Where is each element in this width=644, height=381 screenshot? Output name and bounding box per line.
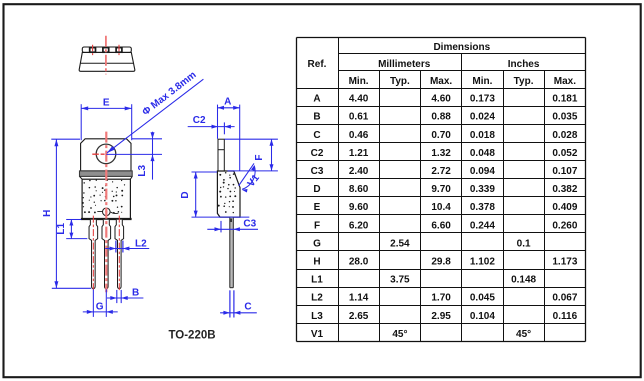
svg-text:V1: V1 xyxy=(311,329,324,340)
svg-text:6.20: 6.20 xyxy=(349,220,369,231)
svg-text:0.107: 0.107 xyxy=(552,166,577,177)
svg-text:3.75: 3.75 xyxy=(390,275,410,286)
svg-text:D: D xyxy=(180,191,191,198)
svg-text:0.46: 0.46 xyxy=(349,130,369,141)
svg-text:6.60: 6.60 xyxy=(431,220,451,231)
svg-text:L1: L1 xyxy=(311,275,323,286)
svg-text:0.028: 0.028 xyxy=(552,130,577,141)
svg-text:0.067: 0.067 xyxy=(552,293,577,304)
svg-text:0.173: 0.173 xyxy=(470,94,495,105)
svg-text:B: B xyxy=(313,112,320,123)
svg-text:C2: C2 xyxy=(311,148,324,159)
svg-text:Dimensions: Dimensions xyxy=(433,42,490,53)
svg-text:1.32: 1.32 xyxy=(431,148,451,159)
svg-text:0.018: 0.018 xyxy=(470,130,495,141)
svg-text:D: D xyxy=(313,184,320,195)
svg-text:Ref.: Ref. xyxy=(308,59,327,70)
svg-text:0.104: 0.104 xyxy=(470,311,495,322)
svg-text:TO-220B: TO-220B xyxy=(168,330,215,342)
svg-text:2.72: 2.72 xyxy=(431,166,451,177)
svg-text:Max.: Max. xyxy=(554,76,576,87)
svg-text:0.339: 0.339 xyxy=(470,184,495,195)
svg-text:9.70: 9.70 xyxy=(431,184,451,195)
svg-text:Typ.: Typ. xyxy=(390,76,410,87)
svg-text:0.382: 0.382 xyxy=(552,184,577,195)
svg-text:2.54: 2.54 xyxy=(390,238,410,249)
svg-text:9.60: 9.60 xyxy=(349,202,369,213)
svg-text:4.60: 4.60 xyxy=(431,94,451,105)
svg-text:Min.: Min. xyxy=(349,76,369,87)
svg-text:10.4: 10.4 xyxy=(431,202,451,213)
svg-text:B: B xyxy=(132,288,139,299)
svg-text:E: E xyxy=(103,98,110,109)
svg-text:Typ.: Typ. xyxy=(514,76,534,87)
svg-text:C: C xyxy=(244,302,251,313)
svg-text:E: E xyxy=(314,202,321,213)
svg-text:L1: L1 xyxy=(56,223,67,235)
svg-text:C2: C2 xyxy=(193,115,206,126)
svg-text:8.60: 8.60 xyxy=(349,184,369,195)
svg-text:C3: C3 xyxy=(311,166,324,177)
svg-text:1.70: 1.70 xyxy=(431,293,451,304)
svg-text:0.116: 0.116 xyxy=(553,311,578,322)
svg-text:2.40: 2.40 xyxy=(349,166,369,177)
svg-text:29.8: 29.8 xyxy=(431,257,451,268)
svg-text:1.173: 1.173 xyxy=(552,257,577,268)
svg-text:A: A xyxy=(224,96,231,107)
svg-text:Inches: Inches xyxy=(508,59,540,70)
svg-text:2.65: 2.65 xyxy=(349,311,369,322)
svg-text:Millimeters: Millimeters xyxy=(378,59,431,70)
svg-text:2.95: 2.95 xyxy=(431,311,451,322)
svg-text:L3: L3 xyxy=(311,311,323,322)
svg-text:0.045: 0.045 xyxy=(470,293,495,304)
svg-text:0.70: 0.70 xyxy=(431,130,451,141)
svg-text:Min.: Min. xyxy=(472,76,492,87)
svg-text:0.61: 0.61 xyxy=(349,112,369,123)
svg-text:0.094: 0.094 xyxy=(470,166,495,177)
svg-text:0.244: 0.244 xyxy=(470,220,495,231)
svg-text:1.102: 1.102 xyxy=(470,257,495,268)
svg-text:L2: L2 xyxy=(311,293,323,304)
svg-text:0.024: 0.024 xyxy=(470,112,495,123)
svg-text:4.40: 4.40 xyxy=(349,94,369,105)
svg-text:0.052: 0.052 xyxy=(552,148,577,159)
svg-text:Φ Max 3.8mm: Φ Max 3.8mm xyxy=(140,70,198,119)
svg-text:0.148: 0.148 xyxy=(511,275,536,286)
svg-text:0.181: 0.181 xyxy=(552,94,577,105)
svg-text:F: F xyxy=(254,155,265,161)
svg-text:G: G xyxy=(313,238,321,249)
svg-text:H: H xyxy=(42,210,53,217)
svg-text:0.378: 0.378 xyxy=(470,202,495,213)
svg-text:0.260: 0.260 xyxy=(552,220,577,231)
svg-text:A: A xyxy=(313,94,320,105)
svg-text:1.21: 1.21 xyxy=(349,148,369,159)
svg-text:C3: C3 xyxy=(243,219,256,230)
svg-text:0.035: 0.035 xyxy=(552,112,577,123)
svg-text:Max.: Max. xyxy=(430,76,452,87)
svg-text:28.0: 28.0 xyxy=(349,257,369,268)
svg-text:45°: 45° xyxy=(392,329,407,340)
svg-text:0.88: 0.88 xyxy=(431,112,451,123)
svg-text:45°: 45° xyxy=(516,329,531,340)
svg-text:H: H xyxy=(313,257,320,268)
svg-text:L3: L3 xyxy=(137,165,148,177)
svg-text:C: C xyxy=(313,130,320,141)
svg-text:G: G xyxy=(96,301,104,312)
svg-text:1.14: 1.14 xyxy=(349,293,369,304)
svg-text:0.409: 0.409 xyxy=(552,202,577,213)
svg-text:F: F xyxy=(314,220,320,231)
svg-text:0.1: 0.1 xyxy=(517,238,531,249)
svg-text:0.048: 0.048 xyxy=(470,148,495,159)
svg-text:L2: L2 xyxy=(135,239,147,250)
